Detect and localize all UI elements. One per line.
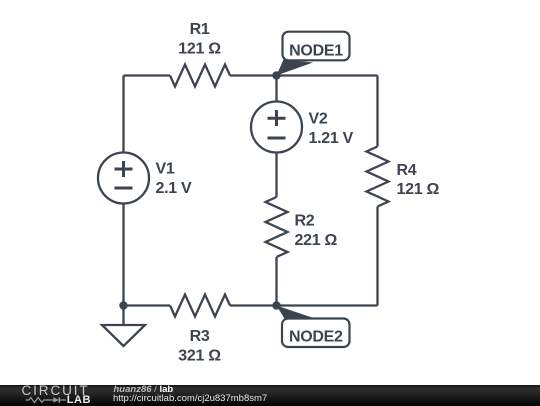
svg-text:121 Ω: 121 Ω <box>397 181 440 198</box>
svg-text:R2: R2 <box>295 212 315 229</box>
svg-text:R4: R4 <box>397 162 417 179</box>
svg-text:V1: V1 <box>156 161 175 178</box>
svg-text:121 Ω: 121 Ω <box>178 41 221 58</box>
svg-text:NODE1: NODE1 <box>289 43 343 60</box>
svg-text:http://circuitlab.com/cj2u837m: http://circuitlab.com/cj2u837mb8sm7 <box>113 393 267 404</box>
svg-text:R1: R1 <box>190 21 210 38</box>
svg-text:V2: V2 <box>309 110 328 127</box>
svg-text:NODE2: NODE2 <box>289 329 343 346</box>
svg-text:1.21 V: 1.21 V <box>309 130 354 147</box>
svg-text:2.1 V: 2.1 V <box>156 180 192 197</box>
svg-text:R3: R3 <box>190 328 210 345</box>
svg-text:221 Ω: 221 Ω <box>295 232 338 249</box>
svg-text:LAB: LAB <box>67 394 91 406</box>
svg-text:321 Ω: 321 Ω <box>178 347 221 364</box>
